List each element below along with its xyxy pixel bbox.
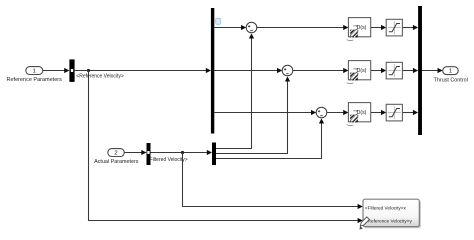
svg-text:2: 2 [114,151,117,157]
svg-text:D(s): D(s) [357,25,367,31]
svg-text:<Filtered Velocity>x: <Filtered Velocity>x [365,206,407,211]
svg-text:1: 1 [449,69,452,75]
svg-text:Actual Parameters: Actual Parameters [94,159,139,165]
svg-text:<Reference Velocity>: <Reference Velocity> [76,74,124,80]
svg-text:<Reference Velocity>y: <Reference Velocity>y [365,219,413,224]
svg-text:D(s): D(s) [357,68,367,74]
svg-text:D(s): D(s) [357,110,367,116]
svg-text:1: 1 [33,69,36,75]
svg-text:<Filtered Velocity>: <Filtered Velocity> [147,157,188,163]
svg-text:Reference Parameters: Reference Parameters [7,77,63,83]
svg-text:Thrust Control: Thrust Control [434,77,468,83]
